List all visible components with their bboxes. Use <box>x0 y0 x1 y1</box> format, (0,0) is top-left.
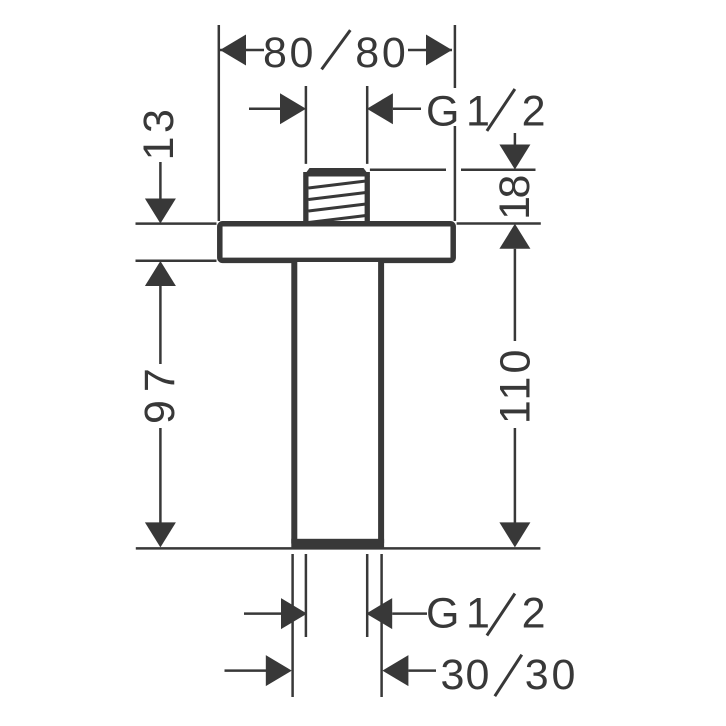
dimension 80/80 <box>220 29 452 77</box>
svg-text:1: 1 <box>466 87 490 135</box>
svg-text:2: 2 <box>522 87 546 135</box>
dimension G1/2 bottom extension line left <box>305 554 308 637</box>
threaded nipple (G1/2 thread stub) <box>303 168 370 226</box>
svg-text:8: 8 <box>263 29 287 77</box>
pipe body (30x30 square arm) <box>294 262 381 543</box>
svg-text:0: 0 <box>465 651 489 699</box>
floor/reference line at pipe end <box>136 547 541 550</box>
dimension 30/30 extension line left <box>291 554 294 697</box>
dimension G1/2 top extension line right <box>366 86 369 164</box>
dimension 30/30 <box>225 651 576 699</box>
dimension 18 extension line (thread top level, gap at crossing) <box>370 169 536 172</box>
dimension 110 extension line (flange top level) <box>457 222 541 225</box>
dimension G1/2 bottom extension line right <box>366 554 369 637</box>
svg-text:3: 3 <box>440 651 464 699</box>
dimension 13 extension line upper <box>136 222 217 225</box>
dimension G1/2 top <box>249 87 546 135</box>
dimension 13 extension line lower <box>136 260 217 263</box>
svg-text:G: G <box>426 87 459 135</box>
dimension G1/2 top extension line left <box>305 86 308 164</box>
svg-text:0: 0 <box>290 29 314 77</box>
svg-text:0: 0 <box>552 651 576 699</box>
svg-text:G: G <box>426 589 459 637</box>
svg-text:2: 2 <box>522 589 546 637</box>
svg-text:3: 3 <box>525 651 549 699</box>
svg-text:13: 13 <box>135 106 183 161</box>
svg-text:1: 1 <box>466 589 490 637</box>
dimension 18 <box>491 133 539 249</box>
dimension 13 <box>135 106 183 224</box>
escutcheon flange (80x80 plate) <box>220 224 453 261</box>
dimension 80/80 extension line left <box>218 25 221 221</box>
dimension 110 <box>492 249 540 548</box>
svg-text:110: 110 <box>492 347 540 425</box>
svg-text:97: 97 <box>136 360 184 424</box>
dimension 30/30 extension line right <box>380 554 383 697</box>
dimension 97 <box>136 261 184 547</box>
svg-text:18: 18 <box>491 176 539 220</box>
dimension G1/2 bottom <box>244 589 546 637</box>
svg-text:8: 8 <box>355 29 379 77</box>
dimension 80/80 extension line right (gap at G1/2 text) <box>454 25 457 221</box>
svg-text:0: 0 <box>382 29 406 77</box>
